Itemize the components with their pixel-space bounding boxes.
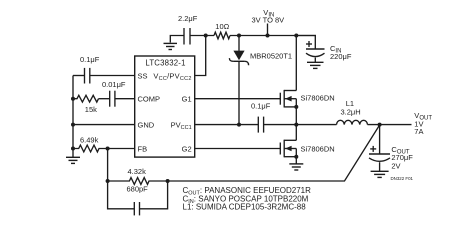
wire FB drop [107, 149, 109, 182]
svg-text:7A: 7A [414, 127, 423, 136]
node FB (junction dot) [106, 147, 110, 151]
capacitor 2.2uF [170, 14, 197, 44]
ground (Q2 source) [289, 164, 303, 170]
svg-text:6.49k: 6.49k [80, 135, 99, 144]
node VCC (junction dot) [204, 34, 208, 38]
resistor 10 ohm [214, 22, 230, 39]
node SW (junction dot) [294, 123, 298, 127]
ground (left rail) [66, 157, 80, 163]
wire GND [73, 124, 135, 126]
node VOUT (junction dot) [378, 123, 382, 127]
svg-text:3V TO 8V: 3V TO 8V [252, 16, 285, 25]
capacitor 680pF [108, 181, 168, 215]
resistor 15k [73, 95, 99, 114]
wire VCC/PVCC2 to top rail [195, 36, 206, 76]
svg-text:10Ω: 10Ω [215, 22, 229, 31]
svg-text:DN322 F01: DN322 F01 [391, 176, 414, 181]
wire top rail [190, 35, 214, 37]
svg-text:2V: 2V [391, 162, 400, 171]
transistor Q1 Si7806DN (top) [280, 36, 334, 125]
node diode top (junction dot) [237, 34, 241, 38]
svg-text:3.2μH: 3.2μH [341, 108, 361, 117]
svg-text:FB: FB [138, 144, 148, 153]
inductor L1 3.2uH [337, 99, 368, 124]
resistor 6.49k [73, 135, 108, 152]
wire SW to L1 [296, 124, 336, 126]
node CIN (junction dot) [294, 34, 298, 38]
svg-text:L1: SUMIDA CDEP105-3R2MC-88: L1: SUMIDA CDEP105-3R2MC-88 [183, 203, 307, 212]
wire feedback to VOUT (diagonal) [168, 125, 380, 181]
wire L1 to VOUT [368, 124, 412, 126]
diode MBR0520T1 [229, 36, 292, 125]
svg-text:0.01μF: 0.01μF [102, 80, 126, 89]
node rail-FB (junction dot) [71, 147, 75, 151]
capacitor 0.1uF (SS) [73, 55, 135, 83]
node rail-GND (junction dot) [71, 123, 75, 127]
svg-text:COMP: COMP [138, 95, 161, 104]
capacitor 0.1uF (boost) [251, 102, 296, 133]
svg-text:15k: 15k [85, 105, 97, 114]
svg-text:220μF: 220μF [330, 52, 352, 61]
svg-text:Si7806DN: Si7806DN [301, 145, 335, 154]
node rail-COMP (junction dot) [71, 97, 75, 101]
VIN label [252, 8, 285, 36]
svg-text:VCC/PVCC2: VCC/PVCC2 [153, 71, 191, 82]
svg-text:270μF: 270μF [391, 153, 413, 162]
svg-text:4.32k: 4.32k [128, 167, 147, 176]
svg-text:Si7806DN: Si7806DN [301, 94, 335, 103]
capacitor 0.01uF (COMP) [99, 80, 135, 107]
svg-text:MBR0520T1: MBR0520T1 [250, 52, 292, 61]
transistor Q2 Si7806DN (bottom) [280, 125, 334, 164]
VOUT labels [414, 111, 432, 136]
wire FB to IC [108, 148, 135, 150]
node PVCC1-diode (junction dot) [237, 123, 241, 127]
resistor 4.32k [108, 167, 168, 184]
svg-text:G1: G1 [182, 95, 192, 104]
ground (2.2uF) [164, 43, 178, 49]
node 4.32k left (junction dot) [106, 179, 110, 183]
ground (CIN) [307, 62, 324, 68]
node 4.32k right (junction dot) [166, 179, 170, 183]
ground (COUT) [371, 171, 389, 177]
svg-text:0.1μF: 0.1μF [80, 55, 100, 64]
svg-text:LTC3832-1: LTC3832-1 [145, 59, 185, 68]
svg-text:2.2μF: 2.2μF [178, 14, 198, 23]
capacitor CIN 220uF [296, 36, 352, 63]
wire G2 [195, 148, 281, 150]
svg-text:G2: G2 [182, 144, 192, 153]
node VIN (junction dot) [266, 34, 270, 38]
IC U1 LTC3832-1 box [135, 56, 195, 157]
wire G1 [195, 98, 281, 100]
wire PVCC1 [195, 124, 259, 126]
wire left rail [72, 76, 74, 158]
capacitor COUT 270uF [369, 125, 413, 171]
annotation notes [183, 186, 312, 212]
svg-text:GND: GND [138, 120, 155, 129]
svg-text:SS: SS [138, 71, 148, 80]
svg-text:PVCC1: PVCC1 [171, 120, 192, 130]
svg-text:680pF: 680pF [127, 184, 149, 193]
svg-text:0.1μF: 0.1μF [251, 102, 271, 111]
